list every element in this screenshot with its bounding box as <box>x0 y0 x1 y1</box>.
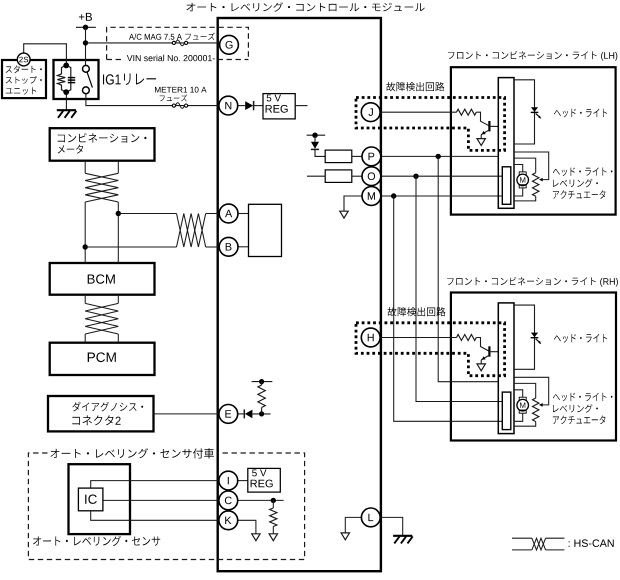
label PCM <box>88 352 116 362</box>
ground emitter RH <box>477 364 485 371</box>
wire sensor C <box>103 499 219 501</box>
wire P branch to RH <box>438 156 498 381</box>
wire RH base feed <box>380 337 456 339</box>
ground M open <box>340 211 348 218</box>
auto-leveling sensor box <box>69 464 131 534</box>
ground L open <box>341 533 349 540</box>
auto-leveling control module box U1 <box>218 18 381 571</box>
connector inner LH <box>502 167 511 205</box>
wire 2S to relay coil <box>24 44 67 66</box>
terminal K <box>219 511 238 530</box>
wire M to ground <box>344 196 362 211</box>
wire actuator wiper LH <box>514 152 549 182</box>
junction B branch <box>83 244 88 249</box>
ground relay chassis <box>57 110 77 118</box>
junction +B / AC-MAG <box>83 40 88 45</box>
label auto leveling sensor <box>33 536 160 546</box>
label BCM <box>88 274 115 283</box>
label 5V REG 1 <box>266 95 288 113</box>
wire L left <box>345 517 361 533</box>
label 5V REG 2 <box>251 470 273 488</box>
wire +B down to relay <box>85 27 87 65</box>
PCM box <box>50 343 155 375</box>
label HS-CAN <box>569 539 614 547</box>
front combination light LH box <box>451 67 616 214</box>
diagnosis connector 2 box <box>48 396 154 431</box>
wire O branch to RH <box>416 176 502 401</box>
terminal J <box>361 103 380 122</box>
node line above diode D2 <box>307 133 326 138</box>
terminal G <box>220 35 239 54</box>
wire M branch to RH <box>394 196 503 421</box>
terminal M <box>362 187 381 206</box>
fault detection circuit dotted box RH <box>356 323 505 376</box>
wire A stub <box>238 213 249 215</box>
headlight circuit frame LH <box>514 80 535 144</box>
label fault detect LH <box>386 82 444 91</box>
combination meter box <box>50 128 155 161</box>
resistor R actuator RH <box>514 383 539 426</box>
label actuator RH <box>553 393 613 424</box>
headlight circuit frame RH <box>514 305 535 369</box>
label +B <box>79 13 92 21</box>
dashed auto-leveling-sensor-equipped box <box>28 453 304 560</box>
twisted pair A/B HS-CAN <box>177 214 206 248</box>
wire N diode <box>238 105 246 107</box>
fuse METER1 10A <box>172 103 187 109</box>
IC box in sensor <box>78 488 103 511</box>
junction A branch <box>116 211 121 216</box>
label actuator LH <box>553 167 613 198</box>
terminal 2S <box>17 53 30 66</box>
terminal H <box>361 328 380 347</box>
wire L right <box>380 517 403 535</box>
wire BCM right down <box>117 295 119 343</box>
wire actuator wiper RH <box>514 377 549 407</box>
regulator 5V REG box 2 <box>248 468 280 492</box>
wire P to LH <box>381 154 499 159</box>
label front light LH <box>448 51 617 61</box>
wire relay coil to ground <box>65 92 67 110</box>
terminal B <box>219 237 238 256</box>
resistor R2 to O <box>307 170 362 183</box>
wire LH base feed <box>380 111 456 113</box>
front combination light RH box <box>451 293 616 441</box>
ground emitter LH <box>477 139 485 146</box>
wire BCM left down <box>84 295 86 343</box>
ground L chassis <box>393 536 413 544</box>
headlight bulb LH <box>531 107 542 119</box>
twisted pair BCM-PCM <box>85 303 118 334</box>
label combination meter <box>58 133 147 154</box>
wire A/C MAG fuse feed to G <box>86 42 220 44</box>
wire sensor K <box>91 511 219 521</box>
wire K right <box>238 520 256 534</box>
resistor R3 above E <box>252 379 273 414</box>
label A/C MAG fuse <box>129 33 215 40</box>
diode D1 after N <box>245 101 263 110</box>
terminal L <box>361 508 380 527</box>
terminal I <box>219 471 238 490</box>
label module title <box>186 2 424 11</box>
wire diagnosis to E <box>154 413 220 415</box>
ground K open <box>252 534 260 541</box>
motor actuator LH <box>514 165 529 197</box>
node +B bar <box>76 25 96 30</box>
label IG1 relay <box>103 74 156 86</box>
dashed VIN applicability box <box>107 27 249 59</box>
transistor Q LH <box>481 121 498 139</box>
wire relay switch to N <box>86 94 219 106</box>
wire E diode <box>238 413 245 415</box>
wire meter right down <box>117 161 119 263</box>
diode D3 at E <box>244 409 270 418</box>
motor actuator RH <box>514 390 529 422</box>
regulator 5V REG box 1 <box>263 94 295 119</box>
label METER1 fuse <box>155 87 207 102</box>
wire O to LH <box>381 174 503 179</box>
terminal C <box>219 491 238 510</box>
resistor R base RH <box>457 335 489 352</box>
resistor R4 below C <box>270 500 277 533</box>
resistor R actuator LH <box>514 158 539 201</box>
label headlight LH <box>554 109 607 118</box>
wire sensor I <box>91 481 219 489</box>
terminal A <box>219 204 238 223</box>
label fault detect RH <box>388 307 446 316</box>
label headlight RH <box>554 334 607 343</box>
fuse A/C MAG 7.5A <box>172 40 187 46</box>
wire C right <box>238 498 284 503</box>
relay coil IG1 <box>57 63 75 96</box>
legend HS-CAN twisted pair <box>512 538 564 550</box>
terminal O <box>362 167 381 186</box>
relay IG1 box <box>54 60 99 99</box>
transistor Q RH <box>481 346 498 364</box>
relay contact IG1 <box>83 65 93 93</box>
BCM box <box>50 263 155 295</box>
wire to A <box>118 213 219 215</box>
diode D2 down <box>311 135 325 156</box>
resistor R base LH <box>457 109 489 126</box>
label VIN serial <box>127 55 215 61</box>
wire I to REG2 <box>238 480 248 482</box>
label front light RH <box>447 277 618 287</box>
connector RH lamp <box>498 303 514 434</box>
terminal P <box>362 147 381 166</box>
fault detection circuit dotted box LH <box>356 98 505 151</box>
resistor R1 to P <box>325 150 362 163</box>
label sensor equipped <box>50 448 214 458</box>
wire M to LH <box>381 193 503 198</box>
connector inner RH <box>502 392 511 430</box>
label diagnosis connector <box>72 402 143 426</box>
connector LH lamp <box>498 78 514 209</box>
terminal E <box>219 405 238 424</box>
wire to B <box>85 246 219 248</box>
connector box A/B <box>249 204 282 256</box>
headlight bulb RH <box>531 333 542 345</box>
ground C open <box>269 534 277 541</box>
start stop unit box <box>2 60 46 98</box>
terminal N <box>219 96 238 115</box>
twisted pair meter-BCM <box>85 173 118 202</box>
wire REG1 out <box>295 105 307 107</box>
wire B stub <box>238 246 249 248</box>
wire meter left down <box>84 161 86 263</box>
label start stop unit <box>6 65 42 94</box>
